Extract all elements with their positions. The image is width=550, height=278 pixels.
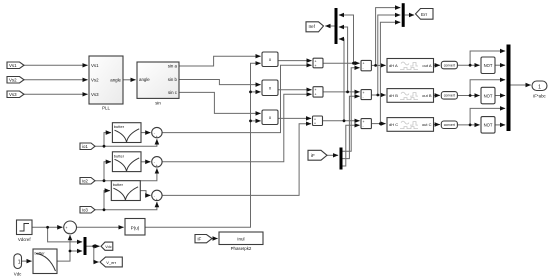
svg-text:+: +	[156, 164, 158, 168]
svg-text:+: +	[315, 64, 317, 68]
svg-text:NOT: NOT	[484, 63, 493, 68]
svg-text:butter: butter	[114, 153, 125, 158]
svg-text:Vs3: Vs3	[9, 92, 17, 97]
svg-text:butter: butter	[114, 124, 125, 129]
svg-text:NOT: NOT	[484, 123, 493, 128]
svg-text:Err: Err	[421, 12, 428, 17]
svg-text:Vs2: Vs2	[9, 78, 17, 83]
svg-text:convert: convert	[444, 94, 455, 98]
svg-text:-: -	[363, 95, 364, 99]
svg-text:+: +	[156, 198, 158, 202]
svg-text:iF*abc: iF*abc	[533, 94, 546, 99]
svg-text:convert: convert	[444, 123, 455, 127]
svg-text:angle: angle	[110, 77, 121, 82]
svg-text:io3: io3	[82, 208, 88, 213]
svg-text:Vdcref: Vdcref	[18, 237, 31, 242]
svg-text:Iref: Iref	[309, 24, 316, 29]
svg-text:iF: iF	[311, 153, 315, 158]
svg-text:out C: out C	[422, 122, 432, 127]
svg-text:1: 1	[18, 259, 21, 265]
svg-text:out A: out A	[422, 63, 431, 68]
svg-text:angle: angle	[139, 77, 150, 82]
svg-text:-: -	[363, 66, 364, 70]
svg-text:-: -	[363, 124, 364, 128]
svg-text:PLL: PLL	[102, 106, 110, 111]
svg-text:Vs1: Vs1	[9, 63, 17, 68]
svg-text:dH A: dH A	[389, 63, 398, 68]
svg-text:dH B: dH B	[389, 93, 398, 98]
svg-text:sin c: sin c	[168, 90, 178, 95]
svg-text:Vs2: Vs2	[91, 77, 99, 82]
svg-text:+: +	[66, 226, 68, 230]
svg-text:Vdc: Vdc	[105, 245, 112, 249]
svg-text:dH C: dH C	[389, 122, 398, 127]
svg-text:butter: butter	[113, 182, 124, 187]
svg-text:NOT: NOT	[484, 93, 493, 98]
svg-text:-: -	[69, 231, 70, 235]
svg-text:+: +	[314, 122, 316, 126]
svg-text:Vs1: Vs1	[91, 63, 99, 68]
svg-text:sin a: sin a	[168, 64, 178, 69]
svg-text:butter: butter	[35, 251, 46, 256]
svg-text:P(u): P(u)	[131, 225, 140, 230]
svg-text:inul: inul	[237, 236, 244, 241]
svg-text:V_err: V_err	[106, 260, 116, 265]
svg-text:io2: io2	[82, 179, 88, 184]
svg-text:PhaseIpk2: PhaseIpk2	[231, 246, 252, 251]
svg-text:Vs3: Vs3	[91, 92, 99, 97]
svg-text:1: 1	[538, 84, 541, 90]
svg-text:sin: sin	[155, 101, 161, 106]
svg-text:Vdc: Vdc	[14, 272, 22, 277]
svg-text:+: +	[315, 92, 317, 96]
svg-text:iF: iF	[198, 237, 202, 242]
svg-text:out B: out B	[422, 93, 432, 98]
svg-text:+: +	[156, 135, 158, 139]
svg-text:io1: io1	[82, 144, 88, 149]
svg-text:sin b: sin b	[168, 77, 178, 82]
svg-text:convert: convert	[444, 63, 455, 67]
